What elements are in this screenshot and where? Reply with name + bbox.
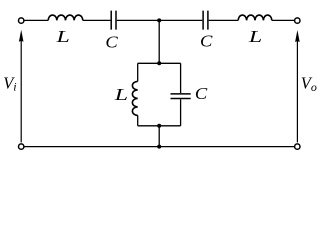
svg-text:L: L [114, 86, 128, 104]
node bottom junction dot [157, 145, 161, 149]
terminal (input top, open circle) [19, 18, 24, 23]
wire tank right branch lower [180, 99, 182, 126]
node tank-top junction dot [157, 61, 161, 65]
capacitor C3 (shunt tank) [171, 94, 191, 99]
capacitor C1 (top-left series) [111, 11, 116, 30]
wire from C1 to node A and on to C2 [117, 19, 203, 21]
inductor L1 (top-left series) [48, 15, 83, 20]
inductor L3 (shunt tank, vertical) [132, 81, 137, 115]
wire tank bottom rail [138, 125, 181, 127]
wire Vi arrow shaft [20, 41, 22, 143]
wire tank top rail [138, 62, 181, 64]
node A (top junction dot) [157, 18, 161, 22]
wire tank right branch upper [180, 63, 182, 93]
terminal (output top, open circle) [295, 18, 300, 23]
svg-text:C: C [105, 32, 118, 51]
wire node A down to tank top [158, 20, 160, 63]
wire top rail segment from input terminal to L1 [24, 19, 48, 21]
inductor L2 (top-right series) [238, 15, 272, 20]
node tank-bottom junction dot [157, 124, 161, 128]
wire from L1 to C1 [83, 19, 111, 21]
wire from L2 to output terminal [272, 19, 294, 21]
arrowhead Vo [295, 30, 300, 42]
capacitor C2 (top-right series) [203, 11, 208, 30]
svg-text:L: L [248, 28, 262, 46]
wire tank left branch upper [137, 63, 139, 81]
arrowhead Vi [19, 30, 24, 42]
terminal (output bottom, open circle) [295, 144, 300, 149]
wire Vo arrow shaft [296, 41, 298, 143]
wire bottom rail [24, 146, 294, 148]
wire tank bottom to ground rail [158, 126, 160, 147]
wire tank left branch lower [137, 115, 139, 125]
terminal (input bottom, open circle) [19, 144, 24, 149]
svg-text:L: L [55, 28, 69, 46]
svg-text:C: C [195, 84, 208, 103]
svg-text:C: C [200, 32, 213, 51]
wire from C2 to L2 [209, 19, 239, 21]
